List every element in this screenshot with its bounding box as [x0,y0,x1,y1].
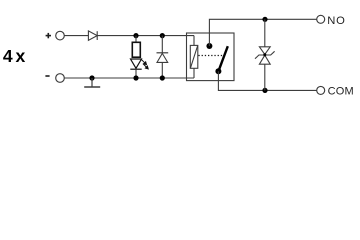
wire LED to minus rail [135,69,137,78]
svg-text:4: 4 [3,46,13,66]
wire minus rail [64,77,194,79]
node junction ground [89,75,94,80]
relay actuation dashed link [198,55,224,57]
switch lever [218,46,227,71]
wire fixed contact to NO terminal [209,19,316,46]
node junction NO rail [262,17,267,22]
wire TVS bottom lead [264,64,266,90]
TVS suppressor RV1 [255,47,275,64]
relay coil [190,36,198,78]
svg-text:COM: COM [328,86,354,98]
wire diode to coil corner [97,35,194,37]
LED D2 [130,59,141,69]
wire resistor lead [135,36,137,43]
svg-text:x: x [15,46,25,66]
minus sign [45,75,49,77]
node junction COM rail [262,88,267,93]
diode D3 flyback [157,36,169,78]
plus sign [46,33,51,38]
terminal circle plus [56,31,65,40]
node junction diode branch bottom [160,75,165,80]
terminal circle minus [56,74,65,83]
switch common contact [215,68,221,74]
resistor R1 [132,42,140,57]
node junction LED branch bottom [133,75,138,80]
wire plus terminal to diode [64,35,88,37]
ground [84,78,100,87]
svg-text:NO: NO [327,15,346,27]
wire TVS top lead [264,19,266,47]
diode D1 series [88,31,97,40]
LED arrows [141,59,148,69]
relay K1 outline box [187,33,235,81]
terminal circle COM [317,86,325,94]
wire common contact to COM terminal [218,71,316,90]
node junction resistor branch top [133,33,138,38]
node junction diode branch top [160,33,165,38]
terminal circle NO [317,15,325,23]
switch fixed contact NO [206,43,212,49]
